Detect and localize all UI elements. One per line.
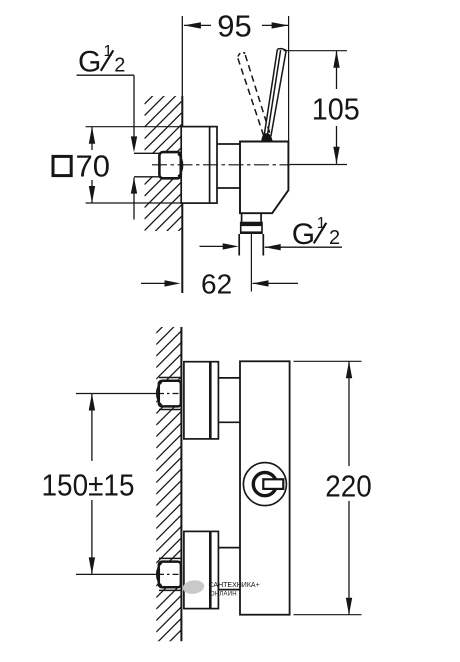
svg-text:2: 2: [329, 227, 340, 249]
stem upper (front view): [218, 378, 240, 422]
wall hatching (top view): [145, 67, 182, 265]
svg-text:105: 105: [312, 91, 360, 126]
union nut (top view): [159, 152, 182, 178]
svg-text:70: 70: [76, 149, 110, 184]
svg-text:G: G: [292, 218, 315, 251]
dimension 105: [284, 51, 360, 164]
centre line of inlet (top view): [152, 164, 347, 166]
wall face line (front view): [180, 327, 182, 641]
thread label G 1/2 (outlet): [200, 215, 343, 251]
watermark logo: [182, 579, 260, 597]
union nut upper (front view): [157, 378, 181, 410]
wall hatching (front view): [156, 308, 181, 655]
escutcheon (top view): [181, 127, 217, 204]
lever handle dashed alternate position: [238, 53, 270, 136]
dimension 62: [141, 234, 298, 299]
lever handle solid position: [261, 49, 286, 142]
mixer body (front view): [240, 361, 290, 614]
dimension 220: [294, 361, 372, 614]
mixer body (top view): [240, 142, 288, 214]
svg-text:G: G: [78, 45, 101, 78]
svg-text:150±15: 150±15: [42, 468, 135, 503]
spout neck: [242, 213, 262, 222]
escutcheon lower (front view): [184, 531, 219, 608]
dimension 150 plus-minus 15: [42, 394, 135, 575]
inlet pipe through wall (white area): [134, 154, 160, 176]
thread label G 1/2 (wall inlet): [77, 43, 161, 219]
svg-text:95: 95: [217, 9, 251, 44]
svg-text:62: 62: [201, 268, 232, 299]
control knob: [243, 463, 286, 506]
dimension square 70: [53, 127, 181, 203]
wall face line (top view): [181, 16, 183, 293]
stem between escutcheon and body (top view): [217, 144, 240, 188]
threaded outlet collar: [240, 222, 263, 234]
centre line upper inlet: [76, 393, 182, 395]
svg-text:220: 220: [325, 468, 372, 503]
svg-text:ОНЛАЙН: ОНЛАЙН: [210, 589, 237, 597]
centre line lower inlet: [76, 573, 182, 575]
stem lower (front view): [218, 548, 240, 590]
union nut lower (front view): [157, 558, 181, 590]
dimension 95: [184, 9, 289, 142]
svg-text:2: 2: [114, 54, 125, 76]
escutcheon upper (front view): [184, 362, 219, 439]
svg-text:САНТЕХНИКА+: САНТЕХНИКА+: [209, 582, 260, 589]
outlet tube: [239, 234, 263, 256]
